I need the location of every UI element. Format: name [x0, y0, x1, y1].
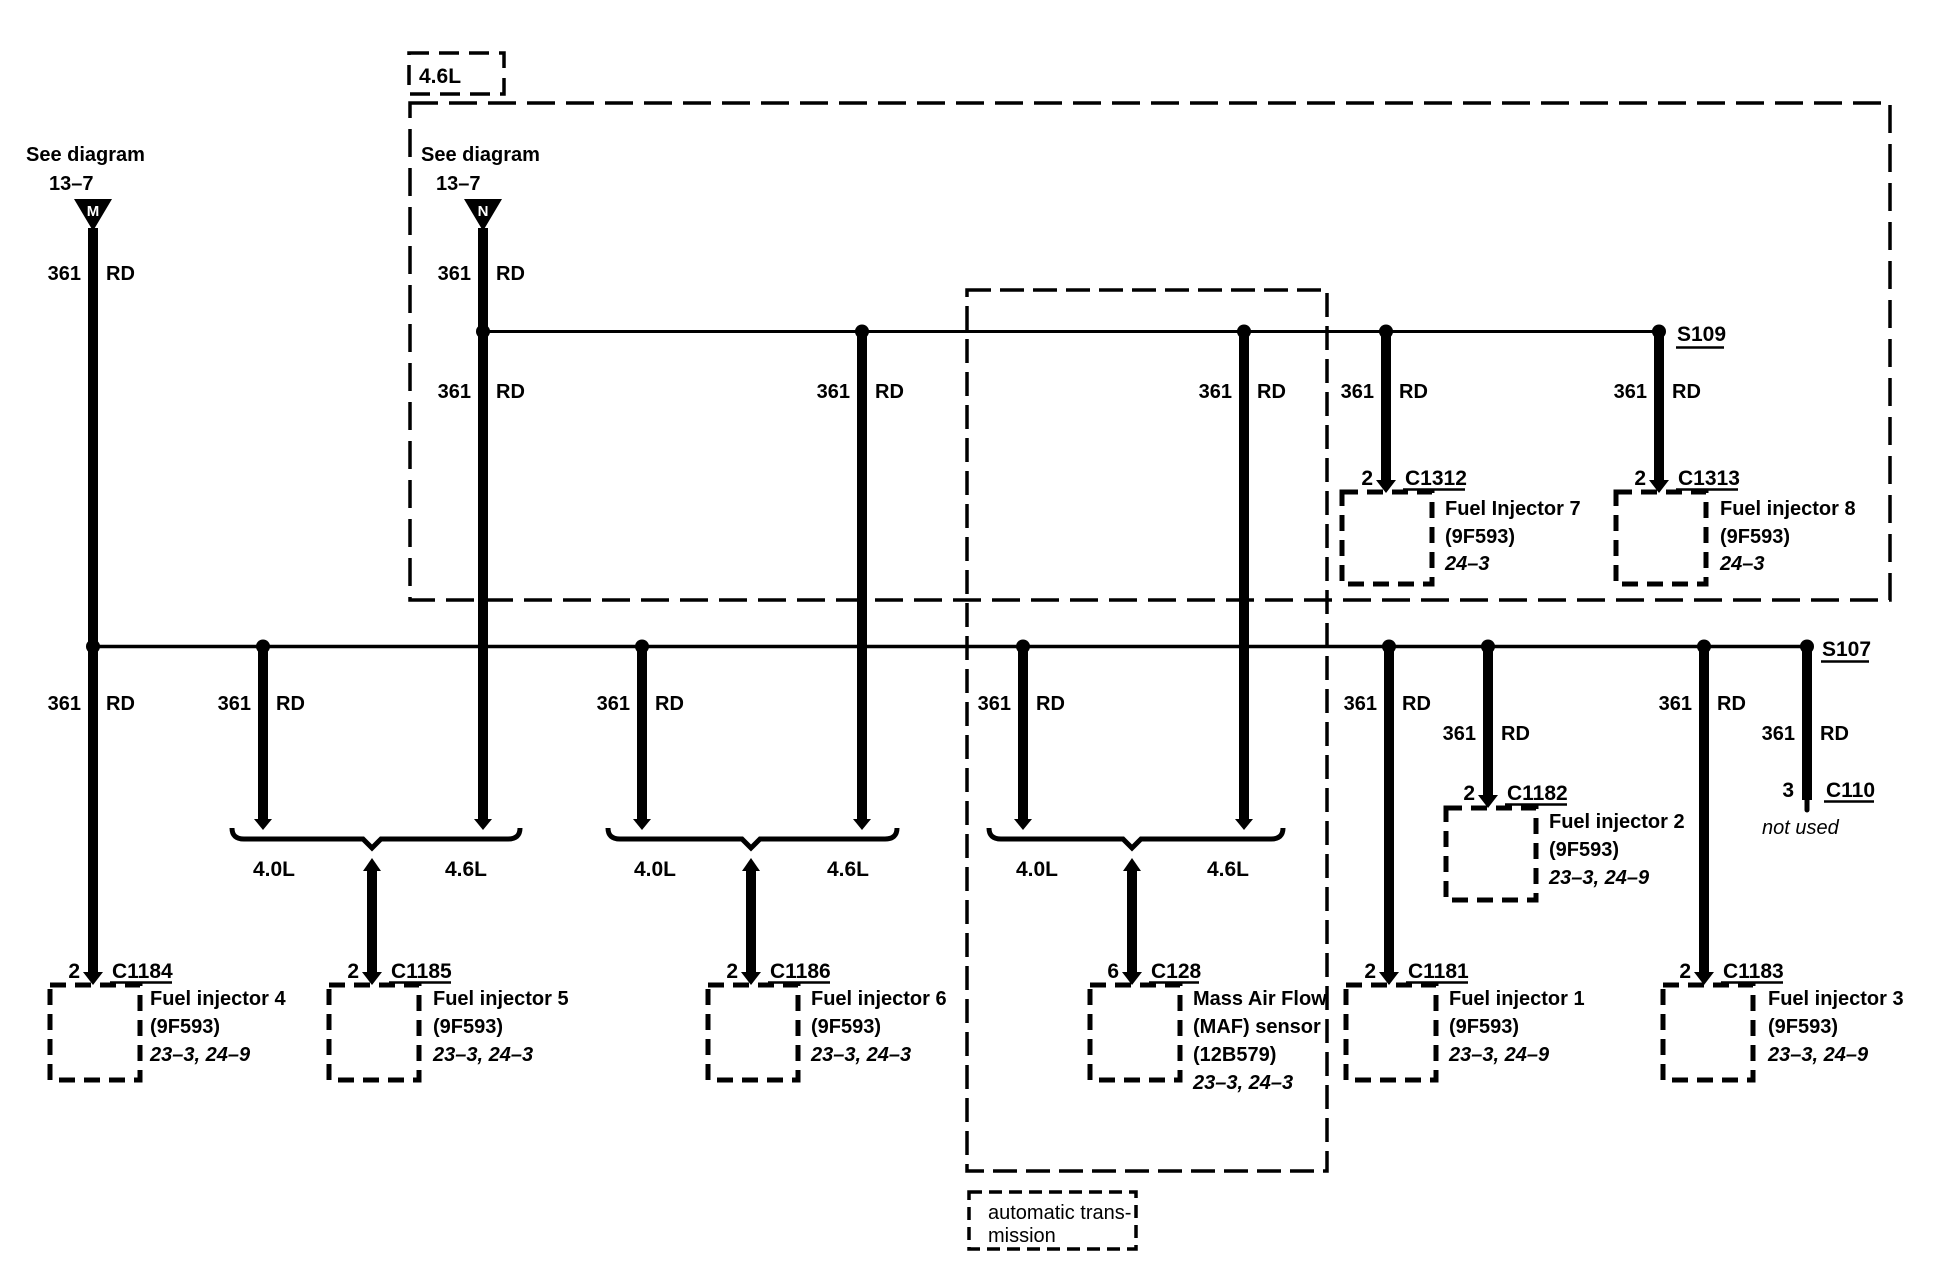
automatic transmission label box	[969, 1192, 1136, 1249]
svg-text:361: 361	[48, 693, 81, 715]
svg-text:C1183: C1183	[1723, 960, 1784, 983]
svg-text:(9F593): (9F593)	[811, 1016, 881, 1038]
label 4.6L brace2	[827, 858, 869, 881]
junction S107 wire FI2	[1481, 640, 1495, 654]
svg-text:RD: RD	[1402, 693, 1431, 715]
wire 361 RD S107 to C1183	[1699, 647, 1709, 974]
arrow into C1184	[83, 972, 103, 985]
svg-text:2: 2	[1679, 960, 1691, 983]
svg-text:C1181: C1181	[1408, 960, 1469, 983]
label 4.6L in top box	[419, 65, 461, 88]
fuel injector 4 box	[50, 985, 140, 1080]
svg-text:Fuel injector 4: Fuel injector 4	[150, 988, 286, 1010]
label 4.0L brace2	[634, 858, 676, 881]
junction S107 wire FI3	[1697, 640, 1711, 654]
wire stub brace2 to C1186	[746, 866, 756, 973]
svg-text:C1186: C1186	[770, 960, 831, 983]
svg-text:361: 361	[1443, 723, 1476, 745]
fuel injector 3 text	[1767, 988, 1904, 1066]
fuel injector 3 box	[1663, 985, 1753, 1080]
connector C110 pin 3	[1782, 779, 1875, 802]
svg-text:See diagram: See diagram	[421, 144, 540, 166]
svg-text:(9F593): (9F593)	[150, 1016, 220, 1038]
junction N wire / S109	[476, 325, 490, 339]
svg-text:361: 361	[438, 381, 471, 403]
svg-text:RD: RD	[1257, 381, 1286, 403]
junction S109 wire3	[1237, 325, 1251, 339]
engine option box 4.6L (top label box)	[409, 53, 504, 94]
label not used	[1762, 817, 1840, 839]
svg-text:13–7: 13–7	[436, 173, 481, 195]
svg-text:(9F593): (9F593)	[1449, 1016, 1519, 1038]
svg-text:(9F593): (9F593)	[1768, 1016, 1838, 1038]
arrow into C128	[1122, 972, 1142, 985]
svg-text:23–3, 24–9: 23–3, 24–9	[1448, 1044, 1550, 1066]
off-page connector M	[74, 199, 112, 231]
wire 361 RD S107 to C110	[1802, 647, 1812, 801]
junction S109 end / S109 splice	[1652, 325, 1666, 339]
splice S107 label	[1821, 638, 1871, 662]
svg-text:2: 2	[68, 960, 80, 983]
wire stub brace3 to C128	[1127, 866, 1137, 973]
fuel injector 6 text	[810, 988, 947, 1066]
svg-text:4.6L: 4.6L	[419, 65, 461, 88]
svg-text:361: 361	[1344, 693, 1377, 715]
svg-text:RD: RD	[875, 381, 904, 403]
svg-text:361: 361	[438, 263, 471, 285]
wire label 361 RD (M wire top)	[48, 263, 135, 285]
hook wire at brace3 right	[1235, 819, 1253, 830]
junction M wire / S107	[86, 640, 100, 654]
fuel injector 2 box	[1446, 808, 1536, 900]
wire label 361 RD (N wire top)	[438, 263, 525, 285]
wire label 361 RD (wire FI1)	[1344, 693, 1431, 715]
svg-text:automatic trans-: automatic trans-	[988, 1202, 1131, 1224]
wire label 361 RD (M wire bottom)	[48, 693, 135, 715]
fuel injector 6 box	[708, 985, 798, 1080]
svg-text:23–3, 24–3: 23–3, 24–3	[1192, 1072, 1293, 1094]
svg-text:2: 2	[1463, 782, 1475, 805]
connector C1313 pin 2	[1634, 467, 1740, 490]
connector C1184 pin 2	[68, 960, 173, 983]
svg-text:361: 361	[1199, 381, 1232, 403]
arrow into C1183	[1694, 972, 1714, 985]
junction S107 wire FI1	[1382, 640, 1396, 654]
svg-text:24–3: 24–3	[1444, 553, 1490, 575]
fuel injector 5 box	[329, 985, 419, 1080]
svg-text:RD: RD	[655, 693, 684, 715]
svg-text:C1185: C1185	[391, 960, 452, 983]
fuel injector 1 text	[1448, 988, 1585, 1066]
svg-text:2: 2	[1361, 467, 1373, 490]
svg-text:RD: RD	[106, 263, 135, 285]
splice bus S109 horizontal wire	[483, 330, 1659, 333]
mass air flow sensor text	[1192, 988, 1327, 1094]
arrow into C1186	[741, 972, 761, 985]
wire label 361 RD (wire brace2 left)	[597, 693, 684, 715]
svg-text:4.6L: 4.6L	[1207, 858, 1249, 881]
svg-text:Fuel Injector 7: Fuel Injector 7	[1445, 498, 1581, 520]
wire 361 RD S107 to brace3	[1018, 647, 1028, 821]
junction S107 wire brace3	[1016, 640, 1030, 654]
junction S109 wire FI7	[1379, 325, 1393, 339]
wire stub brace1 to C1185	[367, 866, 377, 973]
fuel injector 8 box	[1616, 492, 1706, 584]
svg-text:(9F593): (9F593)	[1549, 839, 1619, 861]
svg-text:not used: not used	[1762, 817, 1840, 839]
label automatic trans-	[988, 1202, 1131, 1224]
wire label 361 RD (wire FI3)	[1659, 693, 1746, 715]
svg-text:23–3, 24–9: 23–3, 24–9	[149, 1044, 251, 1066]
svg-text:4.0L: 4.0L	[1016, 858, 1058, 881]
label mission	[988, 1225, 1056, 1247]
fuel injector 7 box	[1342, 492, 1432, 584]
brace 4.0L/4.6L (injector 5 group)	[232, 828, 520, 848]
hook wire at brace3 left	[1014, 819, 1032, 830]
svg-text:Fuel injector 2: Fuel injector 2	[1549, 811, 1685, 833]
hook stub top brace1	[363, 858, 381, 871]
svg-text:4.0L: 4.0L	[634, 858, 676, 881]
svg-text:2: 2	[726, 960, 738, 983]
wire label 361 RD (wire brace1 left)	[218, 693, 305, 715]
svg-text:Fuel injector 8: Fuel injector 8	[1720, 498, 1856, 520]
svg-text:13–7: 13–7	[49, 173, 94, 195]
svg-text:(9F593): (9F593)	[1445, 526, 1515, 548]
label 4.6L brace3	[1207, 858, 1249, 881]
svg-text:C1184: C1184	[112, 960, 173, 983]
svg-text:RD: RD	[1036, 693, 1065, 715]
arrow into C1185	[362, 972, 382, 985]
wire label 361 RD (wire FI8)	[1614, 381, 1701, 403]
svg-text:23–3, 24–9: 23–3, 24–9	[1767, 1044, 1869, 1066]
wire 361 RD S109 to brace3	[1239, 332, 1249, 821]
svg-text:RD: RD	[496, 381, 525, 403]
hook wire at brace2 left	[633, 819, 651, 830]
arrow into C1313	[1649, 480, 1669, 493]
wire 361 RD S107 to brace1	[258, 647, 268, 821]
fuel injector 7 text	[1444, 498, 1581, 575]
hook stub top brace3	[1123, 858, 1141, 871]
label 4.6L brace1	[445, 858, 487, 881]
svg-text:2: 2	[1364, 960, 1376, 983]
svg-text:361: 361	[978, 693, 1011, 715]
wire 361 RD S107 to C1182	[1483, 647, 1493, 797]
svg-text:23–3, 24–3: 23–3, 24–3	[810, 1044, 911, 1066]
svg-text:S109: S109	[1677, 323, 1726, 346]
brace 4.0L/4.6L (MAF group)	[989, 828, 1283, 848]
arrow into C1182	[1478, 795, 1498, 808]
svg-text:S107: S107	[1822, 638, 1871, 661]
off-page connector N	[464, 199, 502, 231]
wire 361 RD S109 to brace2	[857, 332, 867, 821]
label See diagram (right)	[421, 144, 540, 166]
fuel injector 2 text	[1548, 811, 1685, 889]
wire 361 RD from M to C1184	[88, 228, 98, 973]
svg-text:23–3, 24–3: 23–3, 24–3	[432, 1044, 533, 1066]
wire label 361 RD (wire brace3 left)	[978, 693, 1065, 715]
fuel injector 1 box	[1346, 985, 1436, 1080]
svg-text:RD: RD	[1820, 723, 1849, 745]
svg-text:RD: RD	[1399, 381, 1428, 403]
svg-text:C128: C128	[1151, 960, 1202, 983]
svg-text:6: 6	[1107, 960, 1119, 983]
svg-text:C1182: C1182	[1507, 782, 1568, 805]
svg-text:RD: RD	[1717, 693, 1746, 715]
connector C1312 pin 2	[1361, 467, 1467, 490]
hook stub top brace2	[742, 858, 760, 871]
label 13-7 (right)	[436, 173, 481, 195]
svg-text:361: 361	[1762, 723, 1795, 745]
svg-text:4.0L: 4.0L	[253, 858, 295, 881]
wire label 361 RD (N wire below S109)	[438, 381, 525, 403]
splice bus S107 horizontal wire	[93, 645, 1807, 649]
junction S107 wire brace2	[635, 640, 649, 654]
fuel injector 4 text	[149, 988, 286, 1066]
wire label 361 RD (wire2 below S109)	[817, 381, 904, 403]
wire 361 RD S107 to C1181	[1384, 647, 1394, 974]
svg-text:361: 361	[1659, 693, 1692, 715]
label 4.0L brace3	[1016, 858, 1058, 881]
svg-text:mission: mission	[988, 1225, 1056, 1247]
label 13-7 (left)	[49, 173, 94, 195]
hook wire at brace1 left	[254, 819, 272, 830]
junction S109 wire2	[855, 325, 869, 339]
label See diagram (left)	[26, 144, 145, 166]
svg-text:361: 361	[817, 381, 850, 403]
outer dashed box (4.6L region)	[410, 103, 1890, 600]
svg-text:361: 361	[1614, 381, 1647, 403]
svg-text:(12B579): (12B579)	[1193, 1044, 1276, 1066]
svg-text:RD: RD	[496, 263, 525, 285]
svg-text:361: 361	[597, 693, 630, 715]
connector C128 pin 6	[1107, 960, 1201, 983]
svg-text:RD: RD	[106, 693, 135, 715]
junction S107 end / S107 splice	[1800, 640, 1814, 654]
wire C110 end nub	[1805, 800, 1810, 810]
connector C1183 pin 2	[1679, 960, 1783, 983]
fuel injector 5 text	[432, 988, 569, 1066]
svg-text:(9F593): (9F593)	[433, 1016, 503, 1038]
wire label 361 RD (wire FI2)	[1443, 723, 1530, 745]
svg-text:M: M	[87, 203, 100, 220]
junction S107 wire brace1	[256, 640, 270, 654]
hook wire N at brace1	[474, 819, 492, 830]
svg-text:Mass Air Flow: Mass Air Flow	[1193, 988, 1327, 1010]
connector C1186 pin 2	[726, 960, 830, 983]
splice S109 label	[1676, 323, 1726, 348]
hook wire at brace2 right	[853, 819, 871, 830]
connector C1182 pin 2	[1463, 782, 1567, 805]
svg-text:3: 3	[1782, 779, 1794, 802]
svg-text:RD: RD	[276, 693, 305, 715]
svg-text:RD: RD	[1501, 723, 1530, 745]
connector C1181 pin 2	[1364, 960, 1469, 983]
svg-text:RD: RD	[1672, 381, 1701, 403]
fuel injector 8 text	[1719, 498, 1856, 575]
svg-text:Fuel injector 5: Fuel injector 5	[433, 988, 569, 1010]
wire label 361 RD (wire3 below S109)	[1199, 381, 1286, 403]
mass air flow sensor box	[1090, 985, 1180, 1080]
svg-text:(MAF) sensor: (MAF) sensor	[1193, 1016, 1321, 1038]
wire label 361 RD (wire FI7)	[1341, 381, 1428, 403]
svg-text:Fuel injector 6: Fuel injector 6	[811, 988, 947, 1010]
svg-text:361: 361	[48, 263, 81, 285]
svg-text:C1313: C1313	[1678, 467, 1740, 490]
arrow into C1312	[1376, 480, 1396, 493]
svg-text:2: 2	[347, 960, 359, 983]
svg-text:4.6L: 4.6L	[827, 858, 869, 881]
svg-text:361: 361	[218, 693, 251, 715]
wire 361 RD from N to brace1	[478, 228, 488, 820]
svg-text:See diagram: See diagram	[26, 144, 145, 166]
svg-text:23–3, 24–9: 23–3, 24–9	[1548, 867, 1650, 889]
svg-text:(9F593): (9F593)	[1720, 526, 1790, 548]
brace 4.0L/4.6L (injector 6 group)	[608, 828, 897, 848]
svg-text:4.6L: 4.6L	[445, 858, 487, 881]
svg-text:361: 361	[1341, 381, 1374, 403]
arrow into C1181	[1379, 972, 1399, 985]
svg-text:2: 2	[1634, 467, 1646, 490]
svg-text:N: N	[478, 203, 489, 220]
connector C1185 pin 2	[347, 960, 452, 983]
automatic transmission dashed box	[967, 290, 1327, 1171]
svg-text:C1312: C1312	[1405, 467, 1467, 490]
wire 361 RD S109 to C1313	[1654, 332, 1664, 485]
svg-text:24–3: 24–3	[1719, 553, 1765, 575]
wire label 361 RD (wire C110)	[1762, 723, 1849, 745]
wire 361 RD S109 to C1312	[1381, 332, 1391, 485]
wire 361 RD S107 to brace2	[637, 647, 647, 821]
svg-text:Fuel injector 3: Fuel injector 3	[1768, 988, 1904, 1010]
svg-text:Fuel injector 1: Fuel injector 1	[1449, 988, 1585, 1010]
label 4.0L brace1	[253, 858, 295, 881]
svg-text:C110: C110	[1826, 779, 1875, 802]
